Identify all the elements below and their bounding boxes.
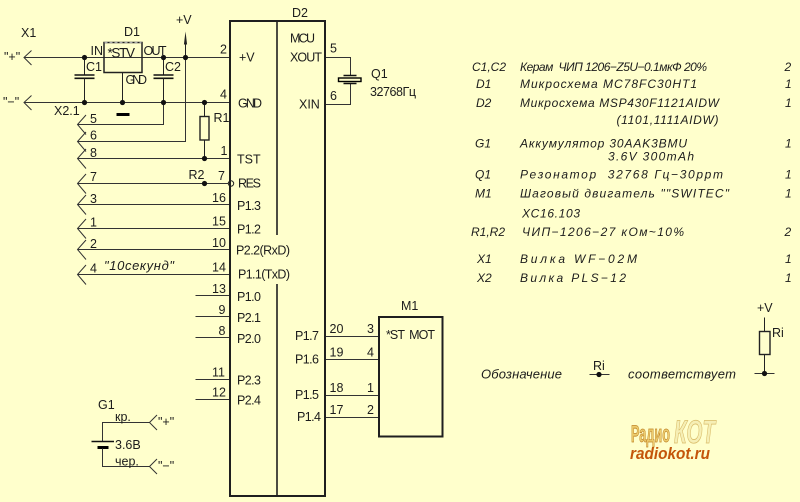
svg-text:Резонатор 32768 Гц−30ppm: Резонатор 32768 Гц−30ppm <box>520 168 723 182</box>
svg-text:1: 1 <box>785 168 792 182</box>
wire X2 pin5 to GND <box>78 103 164 125</box>
svg-text:1: 1 <box>785 271 792 285</box>
svg-text:GND: GND <box>126 73 148 87</box>
svg-text:+V: +V <box>239 51 255 65</box>
svg-text:17: 17 <box>330 403 344 417</box>
svg-text:4: 4 <box>90 262 97 276</box>
svg-text:12: 12 <box>212 386 226 400</box>
capacitor C2 <box>163 58 165 76</box>
svg-text:P1.3: P1.3 <box>237 199 261 213</box>
capacitor C1 <box>84 58 86 76</box>
svg-text:D2: D2 <box>292 6 308 20</box>
node X2 pin3 arrow <box>78 195 87 215</box>
svg-text:7: 7 <box>218 169 225 183</box>
wire P1.5 to M1 pin1 <box>326 395 380 397</box>
legend pull-up +V wire <box>764 318 766 332</box>
svg-text:1: 1 <box>785 252 792 266</box>
svg-text:Микросхема MC78FC30HT1: Микросхема MC78FC30HT1 <box>520 77 697 91</box>
wire pin9 stub <box>196 316 231 318</box>
svg-text:16: 16 <box>212 191 226 205</box>
svg-text:M1: M1 <box>475 187 492 201</box>
node X2 pin5 arrow <box>78 115 87 135</box>
junction R2 node <box>202 181 207 186</box>
svg-text:1: 1 <box>785 96 792 110</box>
svg-text:P1.2: P1.2 <box>237 223 261 237</box>
junction legend pull-up <box>762 371 767 376</box>
battery G1 plates <box>92 441 115 443</box>
svg-text:2: 2 <box>784 60 792 74</box>
svg-text:R2: R2 <box>189 168 205 182</box>
svg-text:1: 1 <box>90 216 97 230</box>
svg-text:1: 1 <box>367 381 374 395</box>
wire X2 pin4 to P1.1 <box>78 274 231 276</box>
wire D1 GND pin <box>122 73 124 103</box>
svg-text:4: 4 <box>367 346 374 360</box>
svg-text:13: 13 <box>212 282 226 296</box>
svg-text:3.6V 300mAh: 3.6V 300mAh <box>608 150 694 164</box>
svg-text:"−": "−" <box>158 459 174 473</box>
svg-text:X2.1: X2.1 <box>54 104 80 118</box>
svg-text:Керам ЧИП 1206−Z5U−0.1мкФ 20%: Керам ЧИП 1206−Z5U−0.1мкФ 20% <box>520 60 707 74</box>
node X2 pin8 arrow <box>78 149 87 169</box>
svg-text:1: 1 <box>785 137 792 151</box>
svg-text:*STV: *STV <box>108 46 136 61</box>
svg-text:P2.4: P2.4 <box>237 394 261 408</box>
svg-text:G1: G1 <box>475 137 491 151</box>
svg-text:C1: C1 <box>86 60 102 74</box>
svg-text:18: 18 <box>330 381 344 395</box>
svg-text:P1.4: P1.4 <box>297 410 321 424</box>
svg-text:X1: X1 <box>21 26 36 40</box>
svg-text:P1.7: P1.7 <box>295 329 319 343</box>
svg-text:P2.3: P2.3 <box>237 374 261 388</box>
svg-text:Аккумулятор 30AAK3BMU: Аккумулятор 30AAK3BMU <box>519 137 687 151</box>
svg-text:MCU: MCU <box>290 32 315 46</box>
wire P1.6 to M1 pin4 <box>326 359 380 361</box>
wire pin8 stub <box>196 337 231 339</box>
legend node wire <box>755 373 775 375</box>
node X1 plus arrow <box>24 51 32 66</box>
node X2 pin7 arrow <box>78 174 87 194</box>
svg-text:1: 1 <box>221 144 228 158</box>
wire X2 pin6 to +V <box>78 58 186 142</box>
junction +V node <box>183 55 188 60</box>
wire X2 pin8 to TST <box>78 158 231 160</box>
junction C2 bottom <box>161 100 166 105</box>
svg-text:8: 8 <box>219 324 226 338</box>
svg-text:C1,C2: C1,C2 <box>472 60 506 74</box>
wire pin11 stub <box>196 379 231 381</box>
svg-text:9: 9 <box>219 303 226 317</box>
junction C1 top <box>82 55 87 60</box>
svg-text:Ri: Ri <box>772 326 784 340</box>
wire P1.4 to M1 pin2 <box>326 417 380 419</box>
svg-text:C2: C2 <box>165 60 181 74</box>
node X1 minus arrow <box>24 96 32 111</box>
svg-text:XIN: XIN <box>299 98 320 112</box>
node G1 minus arrow <box>150 459 158 474</box>
svg-text:OUT: OUT <box>144 44 167 58</box>
node X2 pin2 arrow <box>78 240 87 260</box>
pin RES circle <box>228 181 233 186</box>
svg-text:D1: D1 <box>124 25 140 39</box>
node X2 pin4 arrow <box>78 265 87 285</box>
wire X2 pin2 to P2.2 <box>78 249 231 251</box>
svg-text:Микросхема MSP430F1121AIDW: Микросхема MSP430F1121AIDW <box>520 96 721 110</box>
svg-text:Вилка PLS−12: Вилка PLS−12 <box>520 271 626 285</box>
svg-text:15: 15 <box>212 215 226 229</box>
svg-text:+V: +V <box>757 301 773 315</box>
svg-text:соответствует: соответствует <box>628 367 736 382</box>
svg-text:XC16.103: XC16.103 <box>521 207 580 221</box>
svg-text:6: 6 <box>90 129 97 143</box>
svg-text:Q1: Q1 <box>475 168 491 182</box>
svg-text:D1: D1 <box>476 77 491 91</box>
svg-text:1: 1 <box>785 77 792 91</box>
svg-text:3.6В: 3.6В <box>115 438 141 452</box>
svg-text:Обозначение: Обозначение <box>481 367 562 382</box>
svg-text:Q1: Q1 <box>371 67 388 81</box>
svg-text:G1: G1 <box>98 398 115 412</box>
svg-text:1: 1 <box>785 187 792 201</box>
svg-text:"+": "+" <box>4 50 20 64</box>
wire XOUT pin5 to Q1 <box>326 58 351 76</box>
junction legend Ri <box>596 372 601 377</box>
junction R1 top <box>202 100 207 105</box>
svg-text:GND: GND <box>238 97 262 111</box>
svg-text:ЧИП−1206−27 кОм~10%: ЧИП−1206−27 кОм~10% <box>522 225 684 239</box>
svg-text:5: 5 <box>330 42 337 56</box>
svg-text:XOUT: XOUT <box>290 51 322 65</box>
wire X2 pin1 to P1.2 <box>78 228 231 230</box>
svg-text:6: 6 <box>330 89 337 103</box>
wire X2 pin3 to P1.3 <box>78 204 231 206</box>
svg-text:кр.: кр. <box>115 410 131 424</box>
svg-text:*ST MOT: *ST MOT <box>386 328 435 342</box>
svg-text:P1.0: P1.0 <box>237 290 261 304</box>
svg-text:11: 11 <box>212 366 225 380</box>
svg-text:X1: X1 <box>476 252 492 266</box>
motor M1 box <box>379 317 443 437</box>
svg-text:P1.6: P1.6 <box>295 353 319 367</box>
wire P1.7 to M1 pin3 <box>326 336 380 338</box>
wire XIN pin6 to Q1 <box>326 84 351 105</box>
node G1 plus arrow <box>150 415 158 430</box>
svg-text:Ri: Ri <box>593 359 605 373</box>
svg-text:19: 19 <box>330 346 344 360</box>
wire GND rail (X1 minus to pin 4) <box>25 102 231 104</box>
svg-text:P2.1: P2.1 <box>237 311 261 325</box>
svg-text:P2.0: P2.0 <box>237 332 261 346</box>
svg-text:2: 2 <box>90 237 97 251</box>
svg-text:M1: M1 <box>401 299 418 313</box>
svg-text:(1101,1111AIDW): (1101,1111AIDW) <box>617 113 719 127</box>
wire pin12 stub <box>196 399 231 401</box>
svg-text:P2.2(RxD): P2.2(RxD) <box>236 244 290 258</box>
svg-text:Шаговый двигатель ""SWITEC": Шаговый двигатель ""SWITEC" <box>520 187 730 201</box>
battery G1 bottom wire <box>103 449 150 467</box>
svg-text:IN: IN <box>91 44 104 58</box>
svg-text:2: 2 <box>367 403 374 417</box>
ground <box>117 113 130 116</box>
svg-text:7: 7 <box>90 170 97 184</box>
svg-text:8: 8 <box>90 146 97 160</box>
svg-text:RES: RES <box>238 177 261 191</box>
svg-text:3: 3 <box>367 322 374 336</box>
junction C1 bottom <box>82 100 87 105</box>
svg-text:3: 3 <box>90 192 97 206</box>
junction D1 gnd <box>120 100 125 105</box>
svg-text:TST: TST <box>237 153 261 167</box>
svg-text:14: 14 <box>212 261 226 275</box>
MCU D2 box <box>230 21 325 496</box>
svg-text:"−": "−" <box>3 95 19 109</box>
wire +V rail (X1 plus to pin 2) <box>25 57 231 59</box>
node X2 pin1 arrow <box>78 219 87 239</box>
svg-text:R1,R2: R1,R2 <box>471 225 505 239</box>
svg-text:R1: R1 <box>214 111 230 125</box>
svg-text:X2: X2 <box>476 271 492 285</box>
junction C2 top <box>161 55 166 60</box>
svg-text:"10секунд": "10секунд" <box>104 258 175 273</box>
svg-text:radiokot.ru: radiokot.ru <box>630 445 710 463</box>
svg-text:P1.5: P1.5 <box>295 388 319 402</box>
svg-text:5: 5 <box>90 112 97 126</box>
svg-text:+V: +V <box>176 13 192 27</box>
svg-text:P1.1(TxD): P1.1(TxD) <box>238 268 290 282</box>
svg-text:Радио: Радио <box>631 421 670 448</box>
svg-text:2: 2 <box>784 225 792 239</box>
svg-text:10: 10 <box>212 236 226 250</box>
svg-text:D2: D2 <box>476 96 492 110</box>
regulator D1 box <box>104 43 142 73</box>
svg-text:"+": "+" <box>158 415 174 429</box>
svg-text:20: 20 <box>330 322 344 336</box>
resistor R1 <box>204 103 206 117</box>
battery G1 top wire <box>103 423 150 442</box>
svg-text:чер.: чер. <box>115 455 139 469</box>
MCU D2 divider <box>276 21 278 235</box>
svg-text:32768Гц: 32768Гц <box>370 85 416 99</box>
wire pin13 stub <box>196 295 231 297</box>
wire X2 pin7 to RES <box>78 183 229 185</box>
junction R1 bottom <box>202 156 207 161</box>
svg-text:2: 2 <box>220 43 227 57</box>
crystal Q1 <box>344 75 357 77</box>
power +V arrow <box>185 43 187 58</box>
legend Ri symbol wire <box>590 374 610 376</box>
svg-text:4: 4 <box>220 88 227 102</box>
legend resistor Ri <box>760 332 771 355</box>
node X2 pin6 arrow <box>78 132 87 152</box>
